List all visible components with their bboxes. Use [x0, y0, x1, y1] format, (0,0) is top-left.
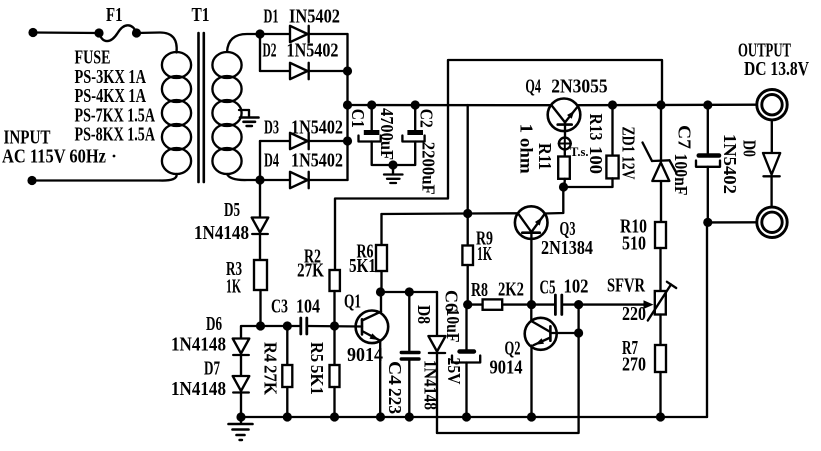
svg-text:C4: C4	[385, 361, 405, 385]
svg-text:2K2: 2K2	[498, 280, 524, 301]
svg-text:1N4148: 1N4148	[194, 223, 249, 244]
output jack bottom	[757, 207, 787, 237]
svg-text:270: 270	[622, 355, 646, 376]
svg-text:F1: F1	[106, 4, 123, 26]
svg-text:100nF: 100nF	[671, 154, 691, 196]
svg-text:R13: R13	[586, 114, 606, 141]
svg-text:Q1: Q1	[344, 292, 361, 313]
diode D3 1N5402	[260, 118, 348, 181]
svg-text:4700uF: 4700uF	[377, 108, 397, 160]
R6 top wire to R9 node	[382, 209, 473, 218]
svg-text:1 ohm: 1 ohm	[517, 124, 537, 174]
svg-text:1N4148: 1N4148	[171, 379, 226, 400]
Q2 emitter wire	[527, 346, 536, 422]
svg-text:PS-4KX 1A: PS-4KX 1A	[75, 86, 147, 107]
svg-text:C2: C2	[416, 109, 436, 128]
transformer T1 primary winding	[162, 4, 210, 174]
svg-text:D5: D5	[224, 200, 240, 221]
svg-text:SFVR: SFVR	[607, 276, 646, 297]
transformer T1 core	[199, 33, 204, 182]
svg-text:220: 220	[622, 304, 646, 325]
svg-text:Q3: Q3	[560, 219, 576, 240]
node wire row (error amp input)	[241, 321, 299, 338]
ground (reference string)	[229, 412, 253, 440]
wire Q1 collector row	[381, 287, 438, 296]
Q3 collector wire	[530, 233, 532, 305]
svg-text:102: 102	[564, 277, 589, 298]
wire D8 to Q2 collector	[437, 328, 583, 433]
svg-text:PS-8KX 1.5A: PS-8KX 1.5A	[75, 125, 156, 146]
wire fuse to transformer	[137, 33, 177, 53]
ground (center tap)	[240, 110, 259, 126]
svg-text:C7: C7	[675, 125, 695, 149]
diode D4 1N5402	[255, 151, 347, 189]
svg-text:R11: R11	[535, 143, 555, 170]
svg-text:D4: D4	[264, 151, 279, 172]
fuse table text	[75, 48, 156, 146]
svg-text:1N5402: 1N5402	[287, 41, 339, 62]
wiper wire with arrow	[579, 300, 654, 309]
resistor R4 27K	[260, 326, 292, 422]
svg-text:10uF: 10uF	[443, 309, 463, 343]
svg-text:9014: 9014	[490, 358, 523, 379]
svg-text:223: 223	[385, 388, 405, 414]
svg-text:5K1: 5K1	[307, 365, 327, 395]
svg-text:C1: C1	[348, 109, 368, 128]
svg-text:25V: 25V	[444, 358, 464, 385]
svg-text:D8: D8	[414, 305, 434, 324]
thermal sensor T.s.	[559, 137, 589, 159]
diode D5 1N4148	[194, 180, 268, 260]
resistor R5 5K1	[307, 326, 340, 422]
svg-text:FUSE: FUSE	[75, 48, 111, 69]
capacitor C7 100nF	[671, 100, 720, 222]
rectifier output bus wire	[343, 34, 352, 180]
svg-text:1N5402: 1N5402	[720, 134, 740, 194]
resistor R9 1K	[462, 105, 493, 309]
resistor R7 270	[622, 315, 666, 422]
main positive rail right segment	[578, 104, 756, 107]
input terminal top	[28, 28, 99, 37]
svg-text:D3: D3	[264, 118, 279, 139]
svg-text:1K: 1K	[226, 277, 241, 298]
svg-text:PS-3KX 1A: PS-3KX 1A	[75, 67, 147, 88]
svg-text:D7: D7	[204, 359, 220, 380]
resistor R3 1K	[226, 259, 267, 326]
svg-text:1N5402: 1N5402	[291, 118, 343, 139]
transformer T1 secondary winding	[212, 34, 260, 180]
svg-text:1K: 1K	[477, 244, 492, 265]
svg-text:9014: 9014	[347, 345, 383, 366]
svg-text:104: 104	[296, 297, 320, 318]
transformer center tap wire	[239, 109, 249, 111]
resistor R2 27K	[297, 247, 340, 327]
svg-text:IN5402: IN5402	[289, 7, 340, 28]
svg-text:5K1: 5K1	[349, 256, 376, 277]
svg-text:2N1384: 2N1384	[541, 238, 593, 259]
svg-text:D1: D1	[264, 7, 279, 28]
diode D1 1N5402	[260, 7, 348, 43]
svg-text:ZD1 12V: ZD1 12V	[619, 127, 639, 180]
svg-text:Q4: Q4	[525, 77, 541, 98]
resistor R10 510	[620, 217, 666, 292]
resistor R8 2K2	[468, 280, 532, 310]
Q3 base wire	[468, 212, 518, 215]
capacitor C4 223	[385, 292, 419, 422]
svg-text:R4: R4	[260, 342, 280, 362]
output label	[738, 41, 809, 81]
Q3 emitter wire	[545, 187, 564, 214]
diode D6 1N4148	[171, 314, 249, 376]
zener ZD1 12V	[619, 100, 677, 222]
svg-text:1N4148: 1N4148	[171, 335, 226, 356]
Q1 collector wire	[376, 287, 385, 311]
svg-text:C5: C5	[540, 278, 556, 299]
transistor Q3 2N1384	[515, 206, 593, 259]
Q2 collector wire	[550, 305, 578, 333]
output bottom rail	[703, 218, 757, 417]
ground (filter caps)	[384, 160, 403, 183]
svg-text:R5: R5	[307, 342, 327, 362]
resistor R11 1 ohm	[517, 124, 570, 187]
diode D8 1N4148	[414, 292, 446, 433]
Q1 emitter wire	[376, 340, 385, 421]
svg-text:D2: D2	[263, 41, 277, 62]
svg-text:DC 13.8V: DC 13.8V	[744, 59, 809, 80]
svg-text:INPUT: INPUT	[4, 128, 51, 149]
svg-text:100: 100	[586, 146, 606, 174]
diode D2 1N5402	[260, 34, 348, 79]
svg-text:R8: R8	[471, 280, 488, 301]
svg-text:D0: D0	[740, 140, 760, 157]
svg-text:27K: 27K	[260, 365, 280, 395]
svg-text:1N5402: 1N5402	[291, 151, 343, 172]
diode D0 1N5402	[720, 120, 780, 207]
input terminal bottom	[27, 174, 176, 185]
output jack top	[757, 90, 787, 120]
svg-text:2N3055: 2N3055	[551, 77, 608, 98]
capacitor C1 4700uF	[348, 100, 397, 165]
resistor R6 5K1	[349, 214, 387, 292]
svg-text:1N4148: 1N4148	[421, 360, 441, 410]
resistor R13 100	[564, 100, 619, 187]
bottom ground rail	[241, 416, 707, 418]
capacitor C6 10uF 25V	[442, 290, 481, 422]
feedback wire (output sense to R2)	[335, 60, 662, 270]
transistor Q4 2N3055	[525, 77, 608, 138]
svg-text:PS-7KX 1.5A: PS-7KX 1.5A	[75, 106, 156, 127]
node secondary top tap	[255, 29, 264, 38]
potentiometer SFVR 220	[607, 276, 676, 326]
svg-text:2200uF: 2200uF	[419, 142, 439, 195]
svg-text:AC 115V 60Hz: AC 115V 60Hz	[2, 147, 106, 168]
svg-text:510: 510	[622, 234, 646, 255]
capacitor C3 104	[271, 297, 362, 335]
input label	[2, 128, 115, 168]
svg-text:T.s.: T.s.	[570, 145, 589, 159]
svg-text:C3: C3	[271, 297, 288, 318]
svg-text:T1: T1	[192, 4, 210, 26]
transistor Q1 9014	[344, 292, 388, 367]
main positive rail left segment	[348, 104, 552, 107]
transistor Q2 9014	[490, 305, 557, 379]
svg-text:Q2: Q2	[505, 339, 521, 360]
svg-text:D6: D6	[206, 314, 222, 335]
diode D7 1N4148	[171, 359, 249, 418]
capacitor C2 2200uF	[393, 100, 439, 194]
node R11/R13/Q3	[559, 182, 568, 191]
fuse F1	[94, 4, 141, 41]
capacitor C5 102	[527, 277, 589, 315]
svg-text:27K: 27K	[297, 261, 325, 282]
